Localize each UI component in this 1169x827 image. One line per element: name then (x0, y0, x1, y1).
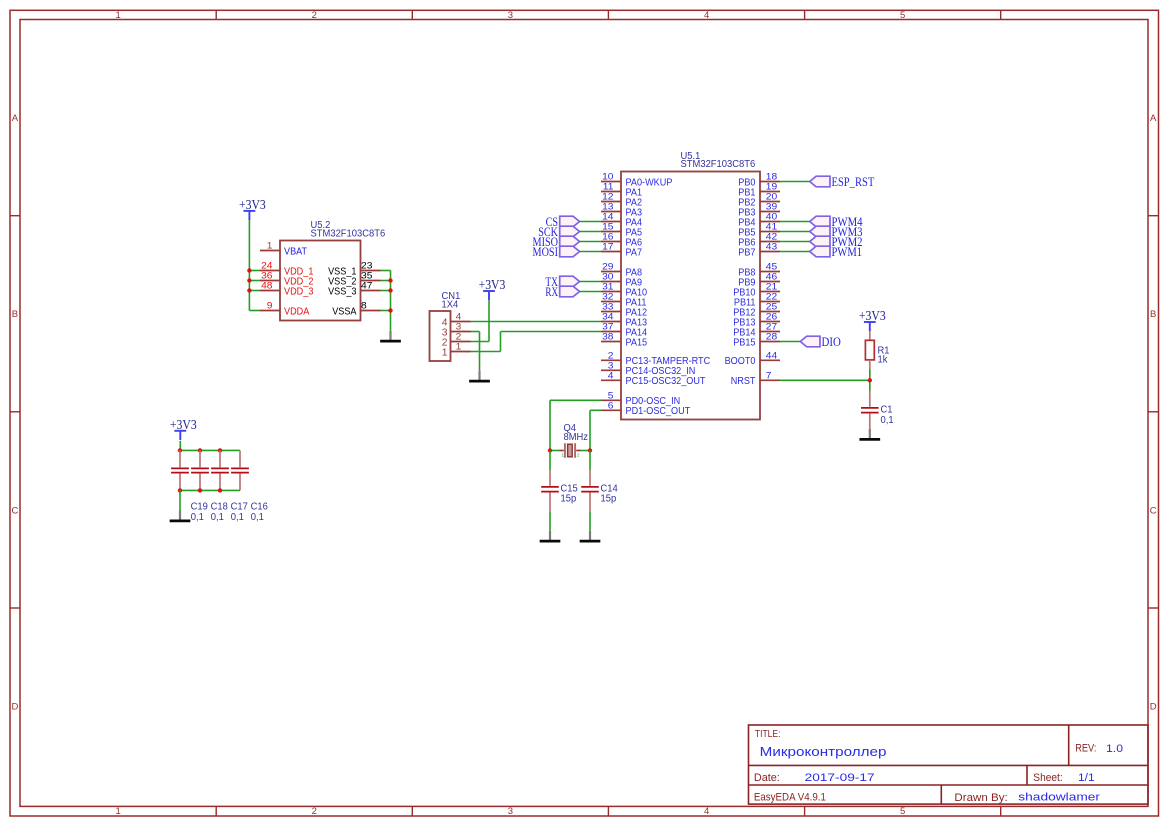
svg-text:41: 41 (766, 222, 777, 232)
pin 23 VSS_1 of U5.2 (328, 261, 380, 278)
ground (CN1 pin 3) (469, 371, 490, 381)
pin 6 PD1-OSC_OUT of U5.1 (601, 401, 691, 418)
pin 47 VSS_3 of U5.2 (328, 281, 380, 298)
net flag PWM4 (810, 215, 863, 229)
svg-text:1k: 1k (878, 355, 888, 366)
svg-text:24: 24 (261, 261, 272, 271)
pin 4 of CN1 (442, 312, 471, 329)
svg-text:39: 39 (766, 202, 777, 212)
svg-text:44: 44 (766, 351, 777, 361)
resistor R1 1k (865, 332, 889, 370)
pin 13 PA3 of U5.1 (601, 202, 642, 219)
connector CN1 1X4 (430, 311, 451, 361)
pin 35 VSS_2 of U5.2 (328, 271, 380, 288)
wire capacitor bank top rail (180, 449, 240, 451)
pin 3 PC14-OSC32_IN of U5.1 (601, 361, 695, 378)
net flag TX (545, 275, 579, 289)
svg-text:B: B (12, 309, 18, 320)
wire PWM1 to pin (780, 251, 810, 253)
pin 22 PB11 of U5.1 (734, 292, 780, 309)
net flag DIO (800, 335, 841, 349)
svg-text:17: 17 (602, 242, 613, 252)
svg-text:14: 14 (602, 212, 613, 222)
svg-text:23: 23 (361, 261, 372, 271)
pin 37 PA14 of U5.1 (601, 322, 647, 339)
svg-text:STM32F103C8T6: STM32F103C8T6 (681, 159, 756, 170)
svg-text:28: 28 (766, 332, 777, 342)
svg-text:EasyEDA V4.9.1: EasyEDA V4.9.1 (754, 792, 826, 804)
svg-text:Sheet:: Sheet: (1033, 772, 1062, 784)
wire DIO to pin (780, 341, 800, 343)
svg-text:16: 16 (602, 232, 613, 242)
wire CN1 pin 4 to PA13 (471, 321, 602, 323)
svg-text:15p: 15p (561, 493, 577, 504)
pin 16 PA6 of U5.1 (601, 232, 642, 249)
wire PWM2 to pin (780, 241, 810, 243)
svg-text:6: 6 (608, 401, 614, 411)
svg-text:7: 7 (766, 371, 772, 381)
wire PWM4 to pin (780, 221, 810, 223)
pin 25 PB12 of U5.1 (733, 302, 780, 319)
capacitor C18 0,1 (191, 450, 228, 522)
pin 21 PB10 of U5.1 (733, 282, 780, 299)
net flag SCK (538, 225, 579, 239)
svg-text:1/1: 1/1 (1078, 772, 1095, 784)
pin 36 VDD_2 of U5.2 (260, 271, 314, 288)
label CN1 1X4 (442, 291, 461, 310)
pin 2 of CN1 (442, 332, 471, 349)
svg-text:3: 3 (508, 806, 513, 817)
svg-text:PA15: PA15 (626, 337, 648, 348)
wire +3V3 to CN1 pin 2 (471, 301, 490, 342)
svg-text:35: 35 (361, 271, 372, 281)
svg-text:1: 1 (115, 806, 120, 817)
svg-text:8MHz: 8MHz (564, 432, 589, 443)
svg-text:12: 12 (602, 192, 613, 202)
net flag RX (545, 285, 579, 299)
svg-text:2: 2 (577, 453, 580, 458)
wire capacitor bank bottom rail (180, 489, 240, 491)
ground (C1) (859, 429, 880, 439)
svg-text:1.0: 1.0 (1106, 743, 1123, 755)
pin 11 PA1 of U5.1 (601, 182, 642, 199)
net flag ESP_RST (810, 175, 875, 189)
net flag MISO (533, 235, 580, 249)
power flag +3V3 (decoupling bank) (170, 417, 197, 440)
svg-text:21: 21 (766, 282, 777, 292)
svg-text:TITLE:: TITLE: (755, 729, 781, 740)
svg-text:1: 1 (456, 342, 462, 352)
svg-text:4: 4 (608, 371, 614, 381)
svg-text:0,1: 0,1 (191, 512, 204, 523)
net flag MOSI (533, 245, 580, 259)
svg-text:2: 2 (456, 332, 462, 342)
pin 48 VDD_3 of U5.2 (260, 281, 314, 298)
pin 43 PB7 of U5.1 (738, 242, 780, 259)
wire CN1 pin 1 to PA14 (471, 332, 602, 352)
svg-text:26: 26 (766, 312, 777, 322)
pin 41 PB5 of U5.1 (738, 222, 780, 239)
wire CN1 pin 3 to ground (471, 332, 480, 371)
svg-text:C1: C1 (881, 405, 893, 416)
svg-text:1: 1 (115, 10, 120, 21)
svg-text:ESP_RST: ESP_RST (832, 175, 875, 189)
svg-text:48: 48 (261, 281, 272, 291)
junction node B (crystal right) (588, 448, 592, 452)
svg-text:shadowlamer: shadowlamer (1018, 792, 1100, 804)
svg-text:Date:: Date: (754, 772, 780, 784)
capacitor C14 15p (581, 451, 618, 531)
svg-text:B: B (1150, 309, 1156, 320)
ic U5.1 STM32F103C8T6 (MCU) (621, 172, 760, 420)
svg-text:1: 1 (442, 347, 448, 358)
svg-text:2: 2 (312, 806, 317, 817)
svg-text:13: 13 (602, 202, 613, 212)
wire ESP_RST to pin (780, 181, 810, 183)
pin 39 PB3 of U5.1 (738, 202, 780, 219)
svg-text:PB7: PB7 (738, 247, 755, 258)
capacitor C19 0,1 (171, 450, 208, 522)
pin 31 PA10 of U5.1 (601, 282, 647, 299)
svg-text:27: 27 (766, 322, 777, 332)
svg-text:Drawn By:: Drawn By: (954, 792, 1007, 804)
svg-text:32: 32 (602, 292, 613, 302)
wire VSS pins of U5.2 to ground (381, 271, 391, 331)
svg-text:A: A (1150, 113, 1157, 124)
ground (C14) (580, 531, 601, 541)
svg-text:0,1: 0,1 (251, 512, 264, 523)
pin 40 PB4 of U5.1 (738, 212, 780, 229)
pin 24 VDD_1 of U5.2 (260, 261, 314, 278)
svg-text:45: 45 (766, 262, 777, 272)
pin 3 of CN1 (442, 322, 471, 339)
svg-text:VSS_3: VSS_3 (328, 286, 357, 297)
svg-text:8: 8 (361, 301, 367, 311)
capacitor C15 15p (541, 451, 578, 531)
svg-text:2: 2 (608, 351, 614, 361)
svg-text:D: D (1150, 702, 1157, 713)
pin 17 PA7 of U5.1 (601, 242, 642, 259)
svg-text:4: 4 (704, 806, 709, 817)
net flag PWM1 (810, 245, 862, 259)
wire bottom rail to ground (179, 490, 181, 510)
pin 2 PC13-TAMPER-RTC of U5.1 (601, 351, 711, 368)
svg-text:+3V3: +3V3 (859, 308, 886, 323)
svg-text:33: 33 (602, 302, 613, 312)
pin 29 PA8 of U5.1 (601, 262, 642, 279)
power flag +3V3 (CN1) (479, 277, 506, 300)
svg-text:PA7: PA7 (626, 247, 643, 258)
svg-text:REV:: REV: (1075, 742, 1096, 754)
pin 46 PB9 of U5.1 (738, 272, 780, 289)
wire NRST pin to node (780, 379, 870, 381)
svg-text:+3V3: +3V3 (479, 277, 506, 292)
svg-text:C: C (1150, 505, 1157, 516)
junction dot NRST node (868, 378, 872, 382)
svg-text:15: 15 (602, 222, 613, 232)
svg-text:3: 3 (456, 322, 462, 332)
pin 12 PA2 of U5.1 (601, 192, 642, 209)
svg-text:38: 38 (602, 332, 613, 342)
pin 28 PB15 of U5.1 (733, 332, 780, 349)
pin 42 PB6 of U5.1 (738, 232, 780, 249)
pin 1 of CN1 (442, 342, 471, 359)
wire TX to pin (580, 281, 601, 283)
junction dots bottom rail (178, 488, 222, 492)
power flag +3V3 (NRST pull-up) (859, 308, 886, 331)
svg-text:1: 1 (267, 241, 273, 251)
svg-text:42: 42 (766, 232, 777, 242)
pin 45 PB8 of U5.1 (738, 262, 780, 279)
crystal Q4 8MHz (550, 423, 590, 458)
junction dots on VDD rail (247, 268, 251, 292)
svg-text:2: 2 (312, 10, 317, 21)
svg-text:VBAT: VBAT (284, 246, 308, 257)
svg-text:11: 11 (603, 182, 614, 192)
svg-text:2017-09-17: 2017-09-17 (805, 772, 875, 784)
pin 20 PB2 of U5.1 (738, 192, 780, 209)
svg-text:10: 10 (602, 172, 613, 182)
pin 33 PA12 of U5.1 (601, 302, 647, 319)
pin 26 PB13 of U5.1 (733, 312, 780, 329)
net flag PWM3 (810, 225, 863, 239)
junction dots top rail (178, 448, 222, 452)
wire SCK to pin (580, 231, 601, 233)
wire MOSI to pin (580, 251, 601, 253)
pin 7 NRST of U5.1 (731, 371, 780, 388)
svg-text:VSSA: VSSA (332, 306, 356, 317)
ic U5.2 STM32F103C8T6 (power pins) (280, 241, 361, 321)
svg-text:0,1: 0,1 (211, 512, 224, 523)
svg-text:43: 43 (766, 242, 777, 252)
wire PWM3 to pin (780, 231, 810, 233)
label U5.1 STM32F103C8T6 (681, 151, 756, 170)
svg-text:A: A (12, 113, 19, 124)
svg-text:29: 29 (602, 262, 613, 272)
svg-text:+3V3: +3V3 (170, 417, 197, 432)
svg-text:PB15: PB15 (733, 337, 756, 348)
wire RX to pin (580, 291, 601, 293)
svg-text:+3V3: +3V3 (239, 197, 266, 212)
wire +3V3 to capacitor bank top rail (179, 441, 181, 450)
svg-text:3: 3 (608, 361, 614, 371)
svg-text:0,1: 0,1 (881, 415, 894, 426)
svg-text:4: 4 (704, 10, 709, 21)
svg-text:VDDA: VDDA (284, 306, 309, 317)
capacitor C17 0,1 (211, 450, 248, 522)
pin 34 PA13 of U5.1 (601, 312, 647, 329)
svg-text:9: 9 (267, 301, 273, 311)
svg-text:Микроконтроллер: Микроконтроллер (760, 744, 887, 759)
ground (U5.2 VSS) (380, 331, 401, 341)
pin 30 PA9 of U5.1 (601, 272, 642, 289)
svg-text:15p: 15p (601, 493, 617, 504)
svg-text:D: D (11, 702, 18, 713)
svg-text:20: 20 (766, 192, 777, 202)
wire R1 to NRST node (869, 370, 871, 391)
junction node A (crystal left) (548, 448, 552, 452)
svg-text:MOSI: MOSI (533, 245, 559, 259)
svg-text:5: 5 (900, 806, 905, 817)
capacitor C16 0,1 (231, 450, 268, 522)
pin 8 VSSA of U5.2 (332, 301, 380, 318)
svg-text:22: 22 (766, 292, 777, 302)
pin 10 PA0-WKUP of U5.1 (601, 172, 673, 189)
title block (749, 725, 1149, 804)
svg-text:DIO: DIO (822, 335, 841, 349)
svg-text:37: 37 (602, 322, 613, 332)
pin 14 PA4 of U5.1 (601, 212, 642, 229)
svg-text:47: 47 (361, 281, 372, 291)
svg-text:5: 5 (900, 10, 905, 21)
wire CS to pin (580, 221, 601, 223)
svg-text:40: 40 (766, 212, 777, 222)
svg-text:RX: RX (545, 285, 558, 299)
ground (C15) (540, 531, 561, 541)
pin 38 PA15 of U5.1 (601, 332, 647, 349)
wire +3V3 to VDD pins of U5.2 (249, 220, 260, 310)
svg-text:PC15-OSC32_OUT: PC15-OSC32_OUT (626, 376, 707, 387)
svg-text:STM32F103C8T6: STM32F103C8T6 (311, 228, 386, 239)
pin 9 VDDA of U5.2 (260, 301, 309, 318)
svg-text:46: 46 (766, 272, 777, 282)
pin 18 PB0 of U5.1 (738, 172, 780, 189)
svg-text:25: 25 (766, 302, 777, 312)
pin 4 PC15-OSC32_OUT of U5.1 (601, 371, 706, 388)
pin 27 PB14 of U5.1 (733, 322, 780, 339)
pin 5 PD0-OSC_IN of U5.1 (601, 391, 680, 408)
pin 44 BOOT0 of U5.1 (725, 351, 780, 368)
svg-text:4: 4 (456, 312, 462, 322)
svg-text:19: 19 (766, 182, 777, 192)
pin 19 PB1 of U5.1 (738, 182, 780, 199)
wire MISO to pin (580, 241, 601, 243)
svg-text:30: 30 (602, 272, 613, 282)
junction dots on VSS rail (388, 278, 392, 312)
svg-text:3: 3 (508, 10, 513, 21)
svg-text:1X4: 1X4 (442, 300, 459, 311)
pin 32 PA11 of U5.1 (601, 292, 647, 309)
svg-text:NRST: NRST (731, 376, 756, 387)
svg-text:VDD_3: VDD_3 (284, 286, 314, 297)
svg-text:0,1: 0,1 (231, 512, 244, 523)
svg-text:C: C (11, 505, 18, 516)
wire PD0-OSC_IN to crystal node A (550, 400, 601, 450)
pin 1 VBAT of U5.2 (260, 241, 308, 258)
svg-text:5: 5 (608, 391, 614, 401)
pin 15 PA5 of U5.1 (601, 222, 642, 239)
svg-text:18: 18 (766, 172, 777, 182)
svg-text:34: 34 (602, 312, 613, 322)
svg-text:PWM1: PWM1 (832, 245, 863, 259)
capacitor C1 0,1 (861, 391, 894, 430)
power flag +3V3 (U5.2 supply) (239, 197, 266, 220)
svg-text:PD1-OSC_OUT: PD1-OSC_OUT (626, 406, 691, 417)
label U5.2 STM32F103C8T6 (311, 220, 386, 239)
ground (decoupling bank) (170, 511, 191, 521)
svg-text:31: 31 (602, 282, 613, 292)
svg-text:BOOT0: BOOT0 (725, 356, 756, 367)
net flag PWM2 (810, 235, 863, 249)
svg-text:36: 36 (261, 271, 272, 281)
wire PD1-OSC_OUT to crystal node B (590, 410, 601, 450)
net flag CS (546, 215, 580, 229)
